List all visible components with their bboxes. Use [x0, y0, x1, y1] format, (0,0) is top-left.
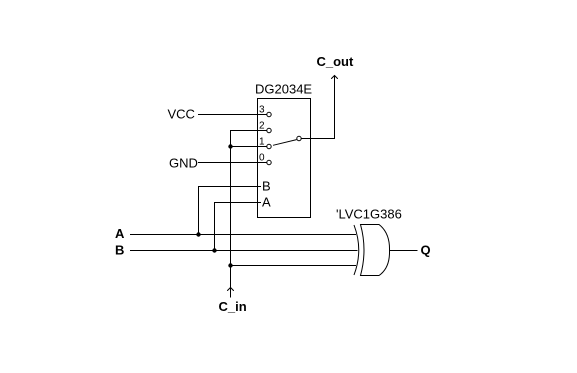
svg-text:GND: GND [169, 156, 198, 171]
svg-text:1: 1 [259, 137, 265, 148]
svg-text:C_out: C_out [317, 54, 355, 69]
svg-text:DG2034E: DG2034E [255, 82, 312, 97]
svg-text:A: A [115, 226, 125, 241]
svg-text:'LVC1G386: 'LVC1G386 [336, 207, 402, 222]
svg-text:Q: Q [421, 243, 431, 258]
svg-text:C_in: C_in [219, 299, 247, 314]
svg-text:0: 0 [259, 153, 265, 164]
svg-text:2: 2 [259, 121, 265, 132]
svg-text:VCC: VCC [168, 107, 195, 122]
svg-text:B: B [262, 179, 271, 194]
svg-text:B: B [115, 243, 124, 258]
svg-text:A: A [262, 195, 271, 210]
svg-text:3: 3 [259, 105, 265, 116]
